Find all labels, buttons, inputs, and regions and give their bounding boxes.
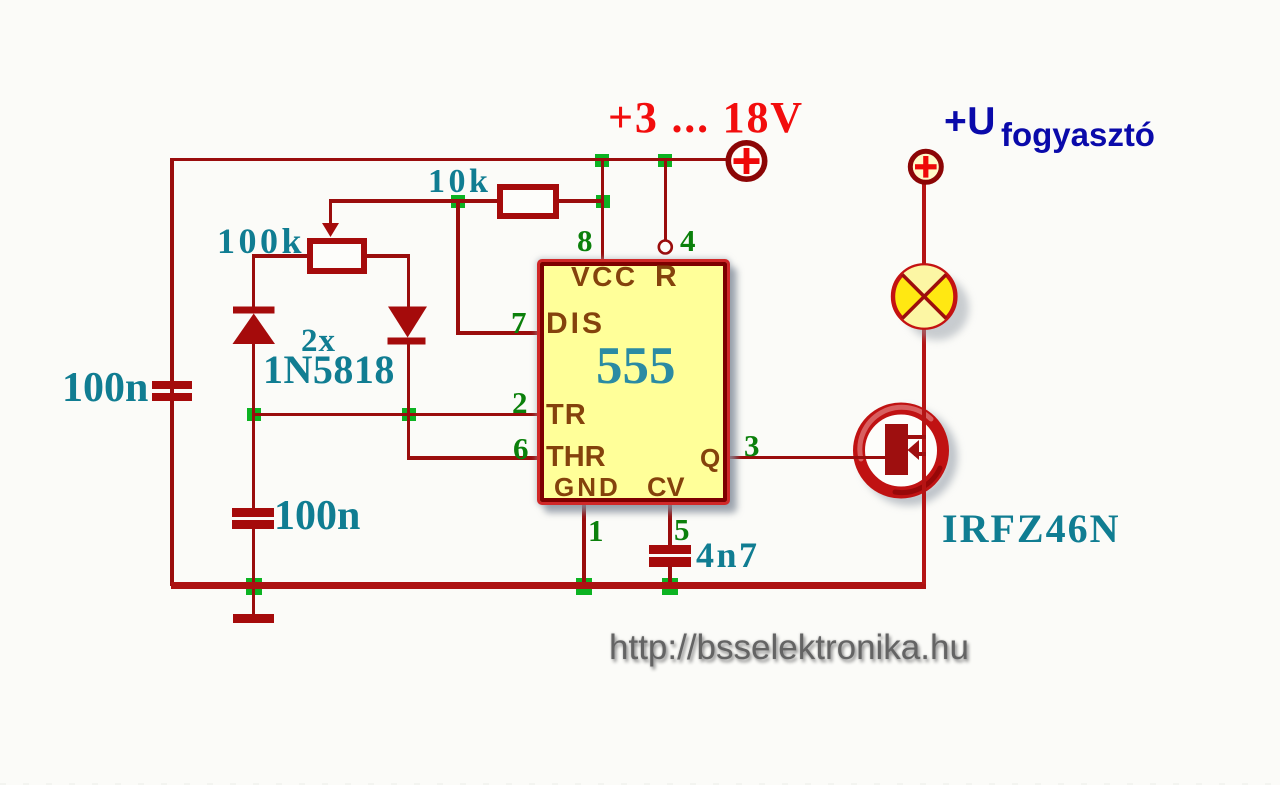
transistor Q1 MOSFET [845,393,973,521]
pin label VCC [571,261,638,293]
pin number 3 [744,428,760,464]
op-amp U1 555 IC body [537,259,730,506]
wire TR node down to capacitor [252,414,256,508]
capacitor C1 100n left plates [152,381,192,390]
junction node 10k/pin8 [596,195,610,208]
mosfet internal source line [914,452,926,456]
wire CV pin5 vertical [668,505,672,545]
capacitor C3 4n7 plates [649,545,691,555]
wire DIS horizontal to pin7 [456,331,538,335]
mosfet internal arrow [905,437,922,463]
pin label CV [647,472,685,503]
pin number 2 [512,385,528,421]
pin number 8 [577,223,593,259]
pin label THR [546,441,606,474]
wire bottom bus [171,582,926,589]
label 10k [428,163,491,201]
label 1N5818 [263,346,395,393]
pin number 4 [680,223,696,259]
wire GND pin1 vertical [582,505,586,582]
wire DIS vertical [456,199,460,334]
capacitor C2 100n plates [232,508,274,518]
pin number 5 [674,512,690,548]
label +3 ... 18V [608,92,804,143]
wire THR horizontal pin6 [407,456,538,460]
junction node top pin4 [658,154,672,167]
mosfet internal drain line [906,435,926,439]
wire pot-right down to diode D2 [407,254,411,307]
label 2x [301,323,336,360]
resistor R1 10k body [497,184,559,220]
supply plus terminal left [723,138,771,186]
wire wiper vertical stub [329,199,333,225]
label IRFZ46N [942,505,1120,552]
label 100n left [62,364,148,412]
wire pot right lead [366,254,410,258]
label 100n lower [274,492,360,540]
wire diode D2 to TR wire [407,344,411,415]
pin4 reset open circle [656,238,675,257]
potentiometer wiper arrow [319,221,343,239]
label +U fogyaszto [944,100,1155,154]
label 4n7 [696,534,760,576]
wire 10k left lead [458,199,498,203]
junction node TR left [247,408,261,421]
wire THR branch vertical [407,414,411,459]
wire pot left lead [252,254,307,258]
wire gate into mosfet [852,456,886,460]
watermark url [609,628,969,668]
ground bar [233,614,274,624]
wire 4n7 to bus [668,566,672,584]
wire Q output pin3 [729,456,886,460]
lamp L1 [884,256,979,351]
junction node wiper/10k [451,195,465,208]
diode D2 1N5818 [384,303,434,348]
wire pin8 vertical [601,159,605,259]
label 100k [217,220,305,262]
wire top supply horizontal [170,158,728,162]
IC name 555 [596,336,676,396]
bottom edge artifact strip [0,783,1280,785]
pin label DIS [546,307,605,341]
pin label R [655,260,677,294]
pin label Q [700,443,720,474]
pin number 6 [513,431,529,467]
wire wiper horizontal to node [329,199,460,203]
wire supply to lamp vertical [922,183,926,266]
pin number 1 [588,513,604,549]
pin label TR [546,399,587,432]
wire pin4 vertical [664,159,667,241]
ground stub [252,589,256,614]
wire TR horizontal pin2 [252,413,538,417]
wire diode D1 to TR node [252,344,256,415]
wire through mosfet (vertical restored) [922,398,926,512]
wire lamp to mosfet / mosfet to bus vertical [922,325,926,584]
junction node bus 4n7 [662,578,678,595]
wire 10k right lead [557,199,603,203]
diode D1 1N5818 [229,303,279,348]
mosfet internal gate bar [885,424,908,475]
pin label GND [554,472,621,503]
pin number 7 [511,305,527,341]
junction node top pin8 [595,154,609,167]
consumer plus terminal right [906,147,946,187]
junction node bus pin1 [576,578,592,595]
wire left vertical [170,158,174,586]
junction node TR diode [402,408,416,421]
wire capacitor to bottom bus [252,529,256,584]
junction node bus ground [246,578,262,595]
wire pot-left down to diode [252,254,256,308]
potentiometer P1 100k body [307,238,367,274]
